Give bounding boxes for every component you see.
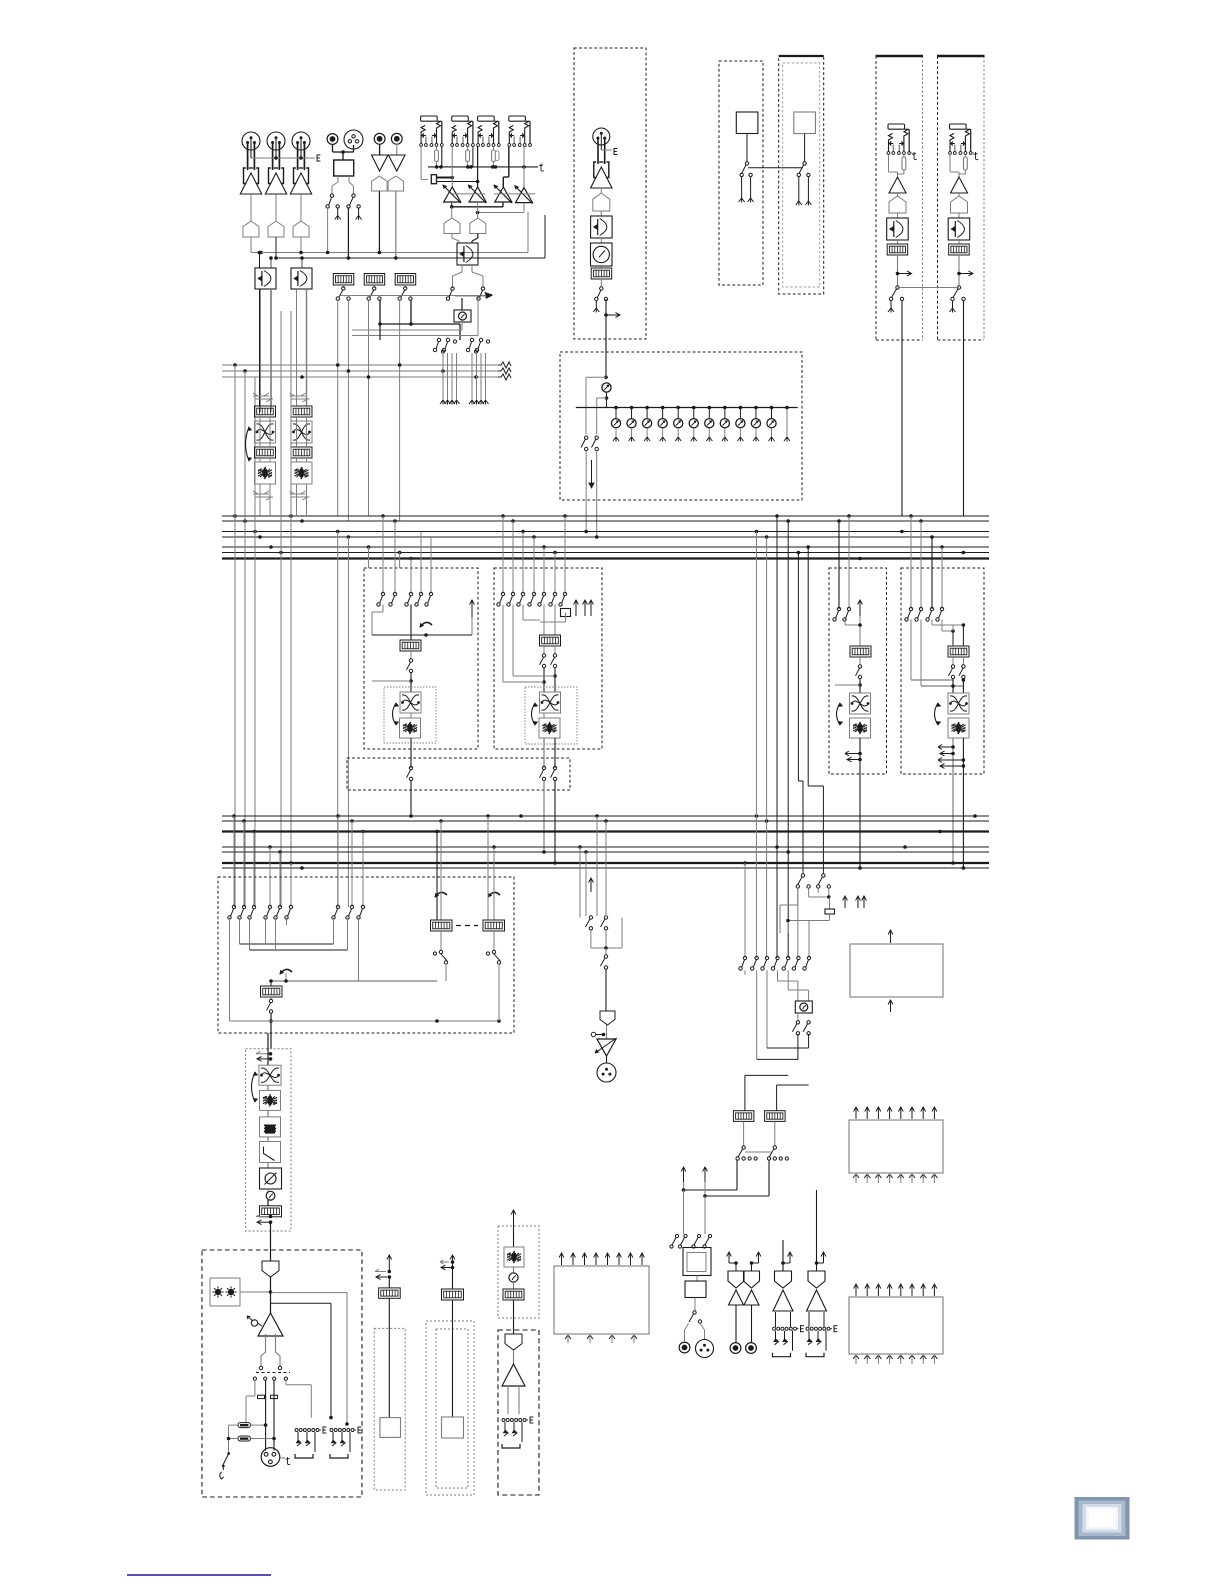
mono out fader (513, 1282, 515, 1289)
main mix switch row 3 (336, 905, 339, 908)
strip output wire down (605, 315, 607, 352)
talkback post switches (797, 1013, 799, 1021)
main out L jack bank (773, 1327, 776, 1330)
tape return fader (452, 1268, 454, 1290)
power amp dashed box (202, 1250, 362, 1497)
mic/line select box (334, 160, 354, 176)
channel drop wires bus1 to EQ/mid (234, 365, 236, 907)
phones jack bank 2 (330, 1429, 333, 1432)
ctrl room fader L (431, 920, 453, 931)
R1 output to bus2 (859, 774, 861, 868)
mute switches L2out (542, 766, 545, 769)
aux clock box (461, 298, 463, 310)
EQ block channel A sweep arrow (246, 427, 250, 461)
mono out starbox (504, 1247, 524, 1267)
pan law box ch B (291, 268, 312, 289)
PS transformer square 1 (736, 112, 758, 134)
solo level switch (605, 948, 607, 955)
strip1 jack resistor (903, 155, 905, 158)
aux master dashed box R2 (901, 568, 984, 774)
talkback top switch pair B (822, 874, 825, 877)
aux pan outputs (461, 265, 463, 272)
R2 output transformer (948, 693, 969, 714)
main mix fader (270, 981, 272, 986)
fader F1 switch (342, 285, 344, 288)
talkback clock box (797, 981, 799, 1001)
channel strip dashed box (mono ch) (574, 48, 646, 339)
R2 switch row (909, 607, 912, 610)
amp output collar (261, 1334, 266, 1366)
aux bank switch row L (437, 338, 440, 341)
talkback collect jumper 2 (756, 970, 758, 1059)
strip mute switch (600, 279, 602, 287)
fader output wires down (337, 300, 339, 516)
wire preamp1 to driver (250, 194, 252, 221)
monitor fader L (733, 1111, 754, 1122)
power supply dashed box 1 (719, 61, 763, 285)
aux master amp 1 (444, 187, 461, 202)
tape out jacks (735, 1305, 737, 1342)
aux send drop wires group 1 (442, 353, 444, 400)
group assign dashed box L2 (494, 568, 602, 749)
branch left from input (586, 376, 606, 378)
stereo line channel strip dashed box 1 (875, 56, 877, 340)
ground bus E line (mic shields) (251, 157, 315, 159)
EQ stack clock pot (267, 1189, 269, 1191)
ctrl room switches (440, 931, 442, 951)
aux collect line 1 (452, 206, 503, 208)
aux pan law box (457, 243, 478, 265)
L1 input wires from bus1 (382, 516, 384, 594)
drop wires right of EQ (280, 311, 282, 907)
phantom distribution line (576, 407, 798, 409)
strip1 thick top border (876, 55, 924, 57)
aux bus line 3 (222, 376, 500, 378)
aux routing wires (461, 322, 463, 330)
strip2 line amp (951, 177, 968, 193)
mute/solo wide dashed box (347, 758, 570, 790)
PS2 ground wires (798, 177, 800, 201)
aux bus line 2 (222, 370, 500, 372)
mono out amp stems (507, 1386, 509, 1414)
LED sense wire to bank2 (271, 1292, 347, 1294)
switch row wire 1 (254, 1380, 256, 1396)
PS1 ground wires (741, 177, 743, 198)
PS2 wire to switch (804, 134, 806, 163)
strip1 output node + arrow (897, 255, 899, 286)
aux master amp 2 (469, 187, 486, 202)
R2 bottom arrows (952, 738, 954, 774)
ctrl room outputs (445, 964, 447, 982)
L1 group fader (400, 640, 421, 651)
ctrl room fader R (483, 920, 505, 931)
strip1 output wire down (901, 301, 903, 516)
talkback jog wire B (807, 547, 809, 786)
XLR mic input connector J1 (242, 132, 260, 150)
R2 routing lines (931, 620, 933, 626)
L1 routing lines (382, 605, 384, 613)
EQ stack output wire (270, 1222, 272, 1250)
2tk return up arrow (388, 1255, 390, 1272)
aux collect line 2 (478, 212, 524, 214)
R1 balanced driver starbox (850, 718, 871, 738)
amp sense wire to bank2 (271, 1302, 332, 1304)
meter box A bottom feet (853, 1174, 859, 1179)
phones jack out (679, 1342, 690, 1353)
phones amp box inner (687, 1253, 706, 1272)
strip2 jack resistor (964, 155, 966, 158)
mains fuse resistor 2 (238, 1436, 250, 1441)
phones amp box outer (683, 1248, 711, 1276)
pan law box ch B feed (301, 258, 303, 268)
main out R jack bank (806, 1327, 809, 1330)
strip2 mute switch (957, 286, 960, 289)
EQ stack slope filter box (267, 1137, 269, 1142)
FX send box (small) (850, 944, 943, 997)
fader F3 switch (404, 285, 406, 288)
EQ stack fader (267, 1200, 269, 1206)
L1 up arrow (471, 600, 473, 617)
EQ stack starbox (267, 1085, 269, 1090)
tape return wire (452, 1300, 454, 1417)
R2 input wires (910, 516, 912, 609)
aux switch R (481, 287, 484, 290)
tape out L wire to line A (378, 191, 380, 253)
talkback feeds from bus1 (6 drops) (755, 532, 757, 959)
talkback routing wires (807, 914, 809, 920)
talkback collect jumper 3 (744, 970, 746, 1075)
solo XLR output (606, 1056, 608, 1063)
wire preamp3 to driver (300, 194, 302, 221)
bus2 junction dots (232, 814, 236, 818)
aux send/return jack bank 4 (509, 116, 526, 121)
mono out wire mid (513, 1300, 515, 1334)
tape return inner dotted box (436, 1329, 468, 1488)
R2 aux fader (948, 646, 969, 657)
wires from J1 pins (247, 141, 249, 170)
solo variable amp (606, 1025, 608, 1039)
strip1 mute switch (896, 286, 899, 289)
mic/line switch SW-A (330, 194, 333, 197)
main out R stems (808, 1312, 810, 1327)
aux bus 2 end resistor (498, 368, 511, 374)
fuse joins (250, 1424, 265, 1426)
mic preamp U1 (244, 168, 247, 184)
main post switch (270, 997, 272, 1000)
mains fuse resistor 1 (238, 1423, 250, 1428)
collector line B riser (544, 215, 546, 258)
master switch pair (585, 436, 588, 439)
main collect node line (271, 980, 437, 982)
meter box A top arrows (855, 1107, 857, 1119)
wires into aux pan box (451, 234, 453, 239)
RCA line input jack (327, 134, 338, 145)
pan box outputs down (259, 289, 261, 406)
node: channel2 output to collector line B (275, 237, 277, 258)
group assign dashed box L1 (364, 568, 478, 749)
EQ stack output arrows (256, 1214, 270, 1217)
ground A below switch B (358, 209, 360, 216)
mic preamp U2 (269, 168, 272, 184)
strip1 line amp (889, 177, 906, 193)
aux bus junction dots (233, 363, 237, 367)
L1 sweep arrow (393, 703, 397, 725)
PS2 switch (803, 162, 806, 165)
talkback dist arrows (844, 896, 846, 908)
mono out wire top (513, 1226, 515, 1247)
aux resistor stems (436, 147, 438, 150)
aux send/return jack bank 1 (421, 116, 438, 121)
mix bus group 2 (222, 815, 989, 817)
mono out dashed box upper (498, 1226, 539, 1318)
amp input pentagon (270, 1250, 272, 1261)
mic/line box outputs (337, 176, 339, 182)
strip1 ground A (890, 301, 892, 308)
aux switch L (451, 287, 454, 290)
phones amp box 2 (696, 1276, 698, 1282)
tape input jack R (391, 133, 402, 144)
strip pan law box (600, 211, 602, 216)
LED box feed (240, 1291, 271, 1293)
tape return outer dotted box (426, 1321, 474, 1495)
strip2 driver pentagon (958, 193, 960, 196)
meter driver box A (849, 1120, 943, 1173)
ctrl room feeds from bus2 (436, 832, 438, 921)
solo switch pair (585, 852, 587, 916)
navigation button (beveled) (1075, 1497, 1130, 1540)
ground A below switch A (337, 209, 339, 216)
tape out R wire to line B (395, 191, 397, 258)
aux driver pentagon R (477, 213, 479, 219)
trim link line (437, 177, 453, 179)
aux send drop wires group 2 (471, 353, 473, 400)
strip2 wire to amp (949, 155, 951, 173)
meter box B bottom feet (853, 1355, 859, 1360)
strip2 insert jack bank (950, 124, 967, 129)
L1 output transformer (400, 692, 421, 713)
mute switch L1out (409, 766, 412, 769)
L1 output wire (410, 713, 412, 718)
tape line driver pentagon pair (372, 176, 388, 191)
aux bank switch row R (470, 338, 473, 341)
chassis ground t (540, 164, 542, 171)
L2 output transformer (540, 692, 561, 713)
aux bank resistor R3 (492, 150, 496, 162)
relay dashed link (256, 1372, 290, 1374)
phones out switch (694, 1298, 696, 1312)
strip ground A (595, 301, 597, 308)
phones switch bank (675, 1234, 678, 1237)
L2 nodes (543, 668, 545, 692)
phones amp triangle (270, 1277, 272, 1313)
PS1 link line to PS2 (748, 167, 803, 169)
ctrl room sweep arrows (435, 892, 447, 897)
main out L arrow (781, 1261, 785, 1265)
speaker XLR out (261, 1448, 280, 1467)
R1 post switch (859, 657, 861, 665)
aux ground line (428, 166, 538, 168)
fader drops to bottom box (337, 532, 339, 908)
main out L driver (782, 1240, 784, 1271)
L2 input wires from bus1 (502, 516, 504, 594)
speaker ground t (280, 1457, 285, 1459)
R1 output transformer (850, 693, 871, 714)
switch B output down to line B (347, 208, 349, 258)
mono out jack bank (502, 1419, 505, 1422)
effects return box (554, 1266, 649, 1334)
phantom pots row (614, 406, 618, 410)
wires into mic/line box (332, 145, 334, 153)
talkback switch row (7) (743, 956, 746, 959)
R1 aux fader (850, 646, 871, 657)
main mix switch row 2 (268, 905, 271, 908)
aux master amp 4 (516, 188, 533, 203)
tape out driver L (728, 1271, 744, 1288)
solo drop wires from bus2 (579, 847, 581, 918)
meter box B top arrows (855, 1284, 857, 1296)
R1 switch pair (837, 607, 840, 610)
mono out amp triangle (513, 1350, 515, 1364)
pan law box ch A (255, 268, 276, 289)
aux bus line 1 (222, 364, 500, 366)
phones XLR out (696, 1340, 714, 1358)
switch row wire 3 (to XLR pin R) (273, 1380, 275, 1450)
aux bus 3 end resistor (498, 374, 511, 380)
last stem no pot (786, 408, 788, 438)
master outputs to bus (585, 451, 587, 532)
R2 balanced driver starbox (948, 718, 969, 738)
2tk return connector square (380, 1418, 401, 1438)
wires from J2 pins (272, 141, 274, 170)
R1 bottom arrows (859, 738, 861, 774)
phones routing down (683, 1190, 685, 1234)
main out L stems (775, 1312, 777, 1327)
EQ stack transformer (259, 1065, 281, 1085)
channel fader block F2 (364, 274, 385, 286)
strip compressor gauge box (600, 238, 602, 243)
line driver pentagon 1 (243, 221, 259, 237)
post fader select line y=295 (340, 295, 490, 297)
strips link line (898, 287, 960, 289)
tape return arrows (452, 1255, 454, 1271)
L1 switch row (381, 592, 384, 595)
PS1 wire to switch (746, 134, 748, 163)
collector line A riser to aux amp (527, 212, 529, 253)
aux master amp 3 (495, 187, 512, 202)
strip1 wire to amp (888, 155, 890, 173)
tape input jack L (374, 133, 385, 144)
R1 sweep arrow (837, 703, 841, 725)
solo feed vertical (379, 324, 381, 340)
2tk return dotted box (374, 1328, 405, 1490)
EQ stack sweep arrow (252, 1072, 256, 1102)
master input wire (605, 339, 607, 377)
L2 switch row (501, 592, 504, 595)
monitor link line (745, 1151, 773, 1153)
graphic EQ dotted box (246, 1049, 291, 1231)
mono out clock pot (513, 1267, 515, 1272)
talkback collect jumper 4 (777, 1084, 809, 1086)
FX send top arrow (890, 930, 892, 943)
fader link dashes (456, 925, 478, 927)
speaker switch row (253, 1377, 256, 1380)
strip1 ground t (908, 153, 910, 155)
strip preamp (594, 162, 597, 178)
switch row wire 2 (to XLR pin L) (265, 1380, 267, 1450)
mains switch (227, 1452, 230, 1455)
R1 junction to up arrow (844, 619, 846, 625)
strip2 ground A (952, 301, 954, 308)
master level pot (602, 383, 611, 392)
L1 node (410, 673, 412, 693)
L2 up arrows (575, 600, 577, 616)
line driver pentagon 2 (268, 221, 284, 237)
strip2 output node + arrow (958, 255, 960, 286)
EQ block channel B (290, 393, 306, 396)
R1 input wires (838, 521, 840, 609)
amp link line upper (452, 193, 485, 195)
stereo line channel strip dashed box 2 (937, 56, 939, 340)
R2 return lines (910, 620, 912, 681)
meter driver box B (849, 1297, 943, 1354)
strip1 fader (897, 240, 899, 244)
R2 post switches (952, 657, 954, 665)
switch row wire 4 (to out bank) (285, 1380, 287, 1385)
solo up arrow (590, 878, 592, 892)
2tk return fader (388, 1277, 390, 1288)
strip2 fader (958, 240, 960, 244)
talkback mic resistor (829, 897, 831, 909)
L1 pan sweep arrow (420, 622, 432, 627)
wire ch1 into pan box (259, 253, 261, 269)
LED indicator box (210, 1278, 240, 1306)
L2 output wires (543, 713, 545, 718)
channel fader block F1 (333, 274, 354, 286)
collector line B y=258 (276, 257, 545, 259)
L2 routing (543, 605, 545, 636)
left mains rail (229, 1424, 239, 1426)
monitor fader outputs (743, 1121, 745, 1146)
PS box 2 thick top (779, 55, 824, 57)
EQ block channel A (253, 393, 269, 396)
L2 post switches (543, 646, 545, 654)
strip1 pan law box (897, 213, 899, 218)
2tk return wire (388, 1298, 390, 1417)
talkback collect jumper 1 (766, 970, 768, 1048)
2tk return hook arrows (375, 1269, 386, 1271)
phones feed wires (683, 1182, 685, 1190)
fader F2 switch (373, 285, 375, 288)
arrowhead on select line (486, 293, 492, 299)
master down arrow (591, 460, 593, 484)
strip2 output wire down (963, 301, 965, 516)
strip1 insert jack bank (888, 124, 905, 129)
PS transformer square 2 (794, 112, 816, 134)
XLR line input connector (344, 130, 363, 149)
node: channel3 output (300, 237, 302, 253)
switch A output down to line A (327, 208, 329, 253)
monitor fader R (765, 1111, 786, 1122)
XLR mic input connector J3 (292, 132, 310, 150)
talkback feed col 7 (808, 921, 810, 959)
mono out driver pentagon (505, 1334, 522, 1350)
effects return top arrows (561, 1253, 563, 1265)
channel fader block F3 (395, 274, 416, 286)
aux send/return jack bank 3 (478, 116, 495, 121)
strip2 thick top border (937, 55, 985, 57)
effects return bottom feet (565, 1335, 571, 1340)
tape out driver R (744, 1271, 760, 1288)
